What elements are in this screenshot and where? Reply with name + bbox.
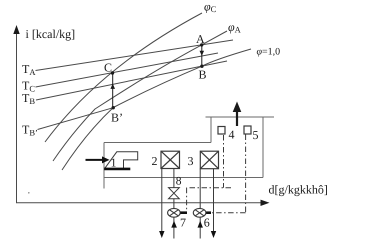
duct right edge bbox=[262, 117, 264, 178]
i axis arrowhead bbox=[13, 25, 19, 34]
svg-text:2: 2 bbox=[152, 154, 158, 168]
pipe from box2 right to valve bbox=[173, 169, 175, 188]
valve 8 bbox=[169, 188, 180, 199]
pipe from box3 right, with down arrow bbox=[213, 169, 215, 232]
d axis arrowhead bbox=[261, 200, 270, 206]
svg-text:B’: B’ bbox=[111, 111, 123, 125]
svg-text:TB’: TB’ bbox=[22, 123, 38, 138]
point B' dot bbox=[112, 106, 115, 109]
humidity curve phiC bbox=[45, 13, 202, 142]
svg-text:φA: φA bbox=[228, 20, 242, 35]
sensor 4 square bbox=[218, 127, 225, 135]
svg-text:d[g/kgkkhô]: d[g/kgkkhô] bbox=[269, 183, 328, 197]
isotherm TC bbox=[36, 53, 219, 87]
svg-text:4: 4 bbox=[229, 128, 235, 142]
speck bbox=[28, 192, 30, 194]
point C dot bbox=[111, 71, 114, 74]
svg-text:φC: φC bbox=[204, 0, 217, 14]
isotherm TA bbox=[36, 40, 234, 71]
svg-text:φ=1,0: φ=1,0 bbox=[257, 47, 281, 58]
pipe from box2 left, with down arrow bbox=[161, 169, 163, 232]
arrow B' to C bbox=[112, 75, 114, 108]
duct step vertical bbox=[210, 117, 212, 143]
fan 1 outline bbox=[105, 152, 138, 168]
duct bottom edge bbox=[104, 177, 263, 179]
heat exchanger 2 box bbox=[161, 151, 180, 168]
exhaust arrow up bbox=[236, 111, 238, 126]
point A dot bbox=[200, 43, 203, 46]
duct raised top edge bbox=[206, 116, 275, 118]
svg-text:3: 3 bbox=[188, 154, 194, 168]
control line from sensor 5 to pump 6 (dash-dot) bbox=[211, 135, 246, 213]
svg-text:1: 1 bbox=[111, 156, 117, 170]
isotherm TB' bbox=[38, 108, 113, 130]
i axis (enthalpy axis) bbox=[16, 31, 18, 203]
arrow A to B bbox=[201, 47, 203, 65]
pipe from box3 left to pump 6 bbox=[199, 169, 201, 209]
duct left edge bbox=[103, 143, 105, 189]
fan inlet arrow bbox=[86, 159, 103, 161]
sensor 5 square bbox=[244, 126, 251, 134]
svg-text:8: 8 bbox=[176, 176, 182, 188]
humidity curve phiA bbox=[53, 31, 227, 161]
control line from sensor 4 to pump 7 (dash-dot) bbox=[187, 135, 231, 211]
pump 7 bbox=[168, 208, 181, 217]
svg-text:6: 6 bbox=[204, 215, 210, 229]
pump 6 stub bbox=[206, 211, 211, 214]
svg-text:7: 7 bbox=[180, 216, 186, 230]
svg-text:A: A bbox=[196, 32, 205, 46]
pipe below pump 7 with up arrow bbox=[173, 217, 175, 238]
heat exchanger 3 box bbox=[200, 151, 218, 169]
pump 7 stub bbox=[180, 211, 187, 214]
d axis bbox=[16, 202, 262, 204]
isotherm TB bbox=[36, 61, 227, 100]
pipe valve to pump 7 bbox=[173, 199, 175, 209]
point B dot bbox=[200, 65, 203, 68]
svg-text:B: B bbox=[199, 68, 207, 82]
fan 1 thick base bbox=[104, 168, 130, 171]
pipe below pump 6 with up arrow bbox=[199, 217, 201, 238]
duct top edge bbox=[104, 142, 211, 144]
svg-text:i [kcal/kg]: i [kcal/kg] bbox=[26, 27, 76, 41]
svg-text:5: 5 bbox=[253, 128, 259, 142]
svg-text:TA: TA bbox=[22, 62, 36, 77]
pump 6 bbox=[193, 208, 206, 217]
saturation curve phi=1,0 bbox=[62, 49, 251, 170]
svg-text:C: C bbox=[104, 61, 112, 75]
